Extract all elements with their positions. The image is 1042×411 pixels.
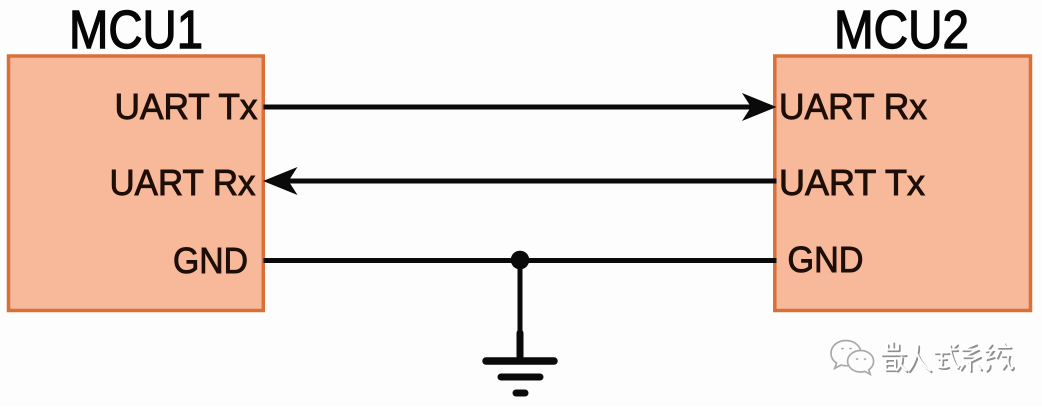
arrowhead into MCU1 Rx: [263, 167, 298, 195]
watermark wechat logo: [831, 341, 874, 375]
ground symbol bar 2: [501, 374, 540, 381]
junction node on GND net: [511, 251, 530, 270]
svg-text:MCU2: MCU2: [834, 0, 969, 60]
svg-text:GND: GND: [173, 240, 248, 281]
svg-text:UART Tx: UART Tx: [779, 162, 925, 203]
ground symbol bar 1: [486, 357, 554, 365]
svg-text:UART Rx: UART Rx: [779, 86, 927, 127]
MCU1 block: [9, 56, 264, 311]
svg-text:UART Tx: UART Tx: [115, 86, 258, 127]
wire GND to GND: [264, 258, 777, 263]
MCU2 block: [775, 56, 1031, 311]
arrowhead into MCU2 Rx: [742, 93, 777, 121]
wire MCU1 Tx to MCU2 Rx: [264, 105, 754, 110]
wire MCU2 Tx to MCU1 Rx: [288, 179, 777, 184]
ground symbol bar 3: [516, 390, 525, 397]
watermark text 嵌入式系统 (embossed): [882, 342, 1014, 372]
svg-text:GND: GND: [788, 239, 864, 280]
svg-text:UART Rx: UART Rx: [110, 162, 256, 203]
svg-text:MCU1: MCU1: [69, 0, 203, 60]
ground symbol stem (thick lower part): [517, 333, 524, 357]
wire junction to ground stem: [518, 260, 523, 350]
